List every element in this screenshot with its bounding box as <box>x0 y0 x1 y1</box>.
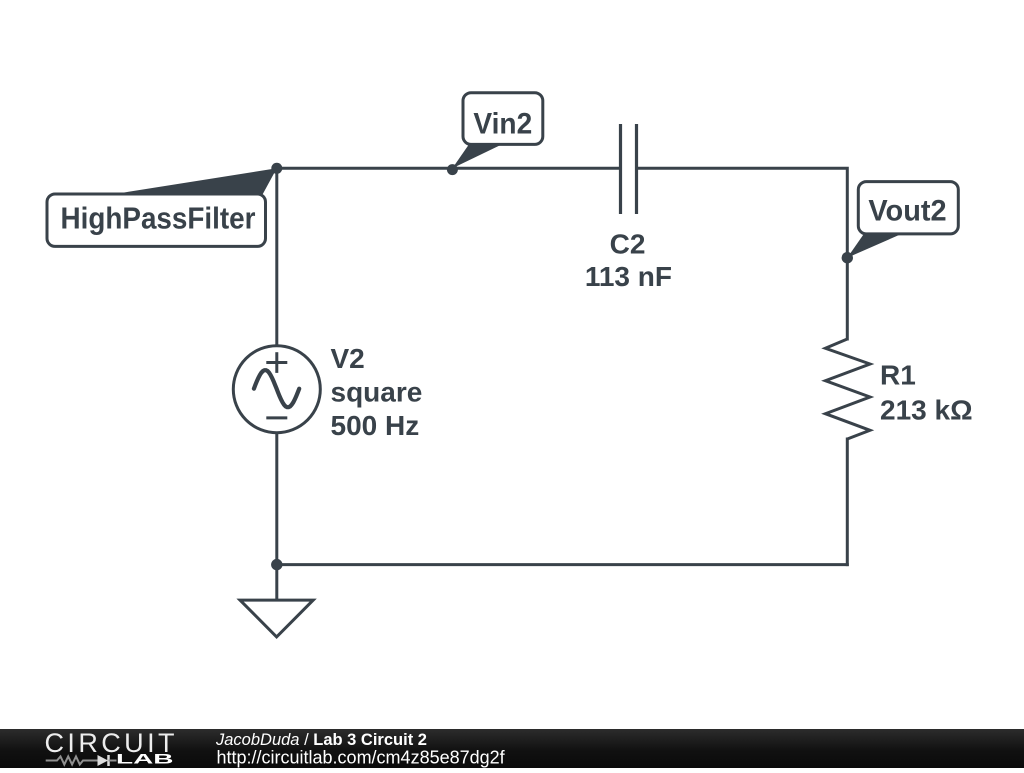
node Vout2 callout <box>847 182 958 258</box>
junction dot top-left <box>271 163 282 174</box>
node dot Vout2 <box>842 252 853 263</box>
capacitor C2 <box>621 124 637 214</box>
svg-text:Vout2: Vout2 <box>868 195 946 228</box>
ground <box>240 600 313 637</box>
svg-text:213 kΩ: 213 kΩ <box>880 394 973 425</box>
wire ground stub <box>275 565 278 600</box>
resistor R1 labels <box>880 359 973 425</box>
svg-text:Vin2: Vin2 <box>473 107 532 140</box>
wire bottom horizontal <box>277 563 848 566</box>
wire right vertical (resistor bottom to bottom-right corner) <box>846 439 849 565</box>
resistor R1 <box>825 339 870 439</box>
capacitor C2 value labels <box>585 229 672 292</box>
svg-text:R1: R1 <box>880 359 916 390</box>
svg-text:http://circuitlab.com/cm4z85e8: http://circuitlab.com/cm4z85e87dg2f <box>217 747 506 767</box>
voltage source V2 <box>233 346 320 433</box>
svg-text:500 Hz: 500 Hz <box>331 410 420 441</box>
svg-text:square: square <box>331 376 423 407</box>
voltage source V2 labels <box>331 343 423 441</box>
svg-text:JacobDuda / Lab 3 Circuit 2: JacobDuda / Lab 3 Circuit 2 <box>215 731 427 749</box>
wire top left segment (junction to capacitor left plate) <box>277 167 621 170</box>
svg-text:113 nF: 113 nF <box>585 261 672 292</box>
footer bar <box>0 729 1024 768</box>
svg-text:C2: C2 <box>610 229 646 260</box>
wire top right segment (capacitor right plate to top-right corner) <box>637 168 848 339</box>
node HighPassFilter callout <box>47 168 277 246</box>
svg-text:HighPassFilter: HighPassFilter <box>61 201 256 235</box>
logo wire+resistor squiggle <box>46 756 98 764</box>
svg-text:LAB: LAB <box>116 751 174 767</box>
wire V2 bottom to ground node <box>275 433 278 564</box>
node dot Vin2 <box>447 164 458 175</box>
wire left vertical (top junction down to V2 top) <box>275 168 278 345</box>
node Vin2 callout <box>452 93 542 169</box>
junction dot bottom-left <box>271 559 282 570</box>
svg-text:V2: V2 <box>331 343 365 374</box>
logo diode <box>98 755 117 766</box>
